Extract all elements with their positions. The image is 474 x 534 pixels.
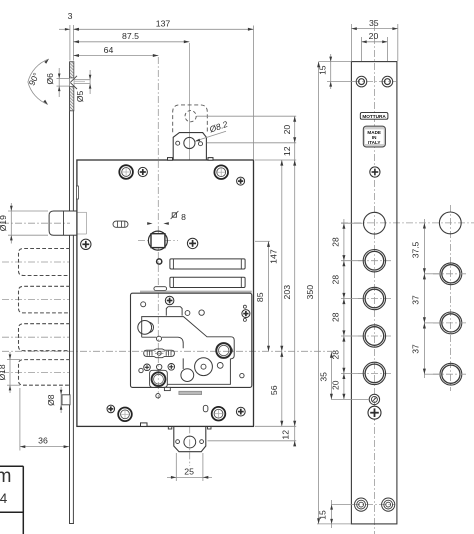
dimension 203 body height xyxy=(293,421,296,427)
svg-text:ITALY: ITALY xyxy=(368,140,381,145)
top bracket center hole dia 8.2 xyxy=(184,137,195,148)
gearbox hole right of gears xyxy=(217,363,223,369)
keyhole circle right column 1 xyxy=(439,212,461,234)
countersunk hole in faceplate xyxy=(70,78,74,87)
gear wheel big xyxy=(195,358,213,376)
lock body outline xyxy=(77,160,254,426)
svg-text:15: 15 xyxy=(317,65,327,75)
gearbox small screw right xyxy=(168,364,175,371)
gearbox mechanism outline xyxy=(142,317,235,385)
svg-text:28: 28 xyxy=(330,275,340,285)
extension line body bottom xyxy=(255,425,296,427)
dimension 350 faceplate height xyxy=(318,62,320,524)
notch on body left edge xyxy=(76,186,78,199)
bottom bracket left hole xyxy=(176,440,180,444)
MOTTURA logo plate xyxy=(360,113,388,120)
slot upper xyxy=(170,259,245,269)
svg-text:35: 35 xyxy=(318,372,328,382)
faceplate hole 4 xyxy=(363,325,385,347)
bottom fixing bracket xyxy=(174,427,206,452)
dimension 90 degree countersink xyxy=(28,59,49,105)
top bracket right screw hole xyxy=(199,142,203,146)
dimension 36 backset xyxy=(19,388,21,451)
faceplate top screw left xyxy=(356,76,367,87)
svg-text:350: 350 xyxy=(305,285,315,300)
screw M2 top-right xyxy=(214,165,228,179)
dimension 64 to spindle xyxy=(73,55,158,57)
lug fill xyxy=(173,133,206,160)
right column crosshairs xyxy=(433,273,468,275)
deadbolt 3 dashed xyxy=(19,324,71,351)
svg-text:25: 25 xyxy=(184,466,194,476)
dimension 35 axis to screw xyxy=(330,351,332,399)
keyhole circle right column 2 xyxy=(440,263,462,285)
centerline top bracket vertical xyxy=(188,43,190,160)
svg-text:28: 28 xyxy=(330,237,340,247)
centerline strip hole crosshairs xyxy=(358,260,391,262)
svg-text:37: 37 xyxy=(411,344,421,354)
svg-text:147: 147 xyxy=(269,249,279,264)
dimension 20 screw spacing xyxy=(361,37,363,61)
svg-text:56: 56 xyxy=(269,385,279,395)
leader dia 8.2 xyxy=(196,131,226,141)
dimension dia 8 pin xyxy=(60,387,62,413)
dimension 25 bracket holes xyxy=(175,453,177,481)
dimension 37.5 and 37 right column xyxy=(423,219,425,378)
keyhole circle right column 4 xyxy=(440,363,462,385)
centerline spindle vertical xyxy=(157,57,159,399)
small slot left of lower slot xyxy=(154,287,167,291)
dimension 85 spindle to axis xyxy=(268,241,270,351)
svg-text:Ø6: Ø6 xyxy=(45,73,55,85)
centerline faceplate front view vertical xyxy=(373,24,375,534)
dimension dia 6 countersink xyxy=(57,78,70,80)
faceplate hole 1 xyxy=(364,212,386,234)
square 8 dimension label xyxy=(172,213,177,218)
gearbox screw top xyxy=(165,296,174,305)
key bush fill xyxy=(150,370,168,387)
dimension 87.5 to top bracket xyxy=(73,41,189,43)
svg-text:MOTTURA: MOTTURA xyxy=(362,114,386,119)
faceplate top screw right xyxy=(382,76,393,87)
svg-text:12: 12 xyxy=(282,146,292,156)
gearbox hole bottom right xyxy=(240,373,244,377)
dia 8 hole through faceplate xyxy=(62,395,70,405)
gearbox small screw left xyxy=(144,364,151,371)
top bracket lug xyxy=(173,133,206,160)
svg-text:20: 20 xyxy=(369,31,379,41)
faceplate edge bar xyxy=(69,62,71,211)
title block table xyxy=(0,465,23,467)
gearbox pivot on centerline xyxy=(157,336,162,341)
extension line body top xyxy=(255,159,296,161)
tab on bottom edge left xyxy=(141,423,148,427)
svg-text:35: 35 xyxy=(369,18,379,28)
dimension 15 top xyxy=(319,61,352,63)
bottom bracket right hole xyxy=(200,440,204,444)
chain dimension 28 x4 and 20 xyxy=(343,219,345,399)
gearbox stop block xyxy=(166,307,182,316)
faceplate bottom screw right xyxy=(382,498,395,511)
centerline faceplate bottom screws xyxy=(353,504,395,506)
svg-text:3: 3 xyxy=(68,11,73,21)
svg-text:Ø5: Ø5 xyxy=(75,91,85,103)
svg-text:m: m xyxy=(0,466,12,487)
screw M4 bottom-right xyxy=(212,407,226,421)
gearbox hole near stop block xyxy=(185,311,190,316)
faceplate bottom screw left xyxy=(355,498,368,511)
centerline main horizontal axis xyxy=(2,350,332,352)
latch spring below gearbox xyxy=(164,387,170,390)
pin hole below spindle xyxy=(157,259,162,264)
bracket fill xyxy=(174,427,206,452)
faceplate hatched section xyxy=(70,62,74,111)
gearbox fill xyxy=(131,293,252,387)
svg-text:28: 28 xyxy=(330,312,340,322)
deadbolt 4 dashed xyxy=(19,360,71,386)
pin hole below gearbox xyxy=(156,394,160,398)
cross screw bottom-right xyxy=(236,407,245,416)
svg-text:87.5: 87.5 xyxy=(122,31,139,41)
svg-text:4: 4 xyxy=(0,491,8,506)
cross screw right upper xyxy=(237,177,245,185)
faceplate front view plate xyxy=(351,62,397,524)
keyhole circle right column 3 xyxy=(440,312,462,334)
top bracket left screw hole xyxy=(176,141,180,145)
body fill xyxy=(77,160,254,426)
centerline bolt row 1 xyxy=(2,261,70,263)
svg-text:8: 8 xyxy=(181,212,186,222)
deadbolt 2 dashed xyxy=(19,286,71,313)
gearbox screw right xyxy=(242,310,250,318)
svg-text:12: 12 xyxy=(281,430,291,440)
slot lower xyxy=(170,277,245,287)
oval vent hole xyxy=(113,221,128,227)
svg-text:36: 36 xyxy=(38,436,48,446)
centerline spindle horizontal crosshair xyxy=(138,240,178,242)
cross screw top-left xyxy=(138,167,147,176)
svg-text:64: 64 xyxy=(104,45,114,55)
small slot bottom xyxy=(203,405,208,412)
gear wheel small xyxy=(181,369,194,382)
centerline bottom bracket vertical xyxy=(189,426,191,466)
latch tail hidden inside body xyxy=(78,211,87,213)
faceplate small hole xyxy=(369,394,379,404)
faceplate hole 3 xyxy=(363,287,385,309)
deadbolt 1 dashed xyxy=(19,249,71,276)
gearbox hole below pivot xyxy=(157,364,162,369)
svg-text:203: 203 xyxy=(282,285,292,300)
top fixing bracket dashed extension xyxy=(173,105,208,132)
top bracket dashed hole xyxy=(185,111,196,122)
svg-text:85: 85 xyxy=(255,292,265,302)
body top edge tabs xyxy=(168,158,173,161)
key bit slot xyxy=(144,349,175,358)
svg-text:Ø8: Ø8 xyxy=(46,394,56,406)
key bush bottom xyxy=(150,370,168,387)
gearbox boss top-left xyxy=(138,321,152,335)
faceplate hole 2 xyxy=(363,250,385,272)
screw M3 bottom-left xyxy=(118,408,132,422)
dimension 137 body depth xyxy=(73,28,253,30)
centerline bolt row 4 xyxy=(2,371,70,373)
gearbox plate shadow edge xyxy=(140,291,252,293)
MADE IN ITALY plate xyxy=(363,126,385,147)
cross screw bottom-left xyxy=(107,405,115,413)
dimension 147 top to axis xyxy=(281,160,283,426)
gearbox pivot hole top-left xyxy=(141,302,146,307)
dimension 12 bottom right xyxy=(293,441,296,447)
dimension dia 18 deadbolt xyxy=(7,359,20,361)
svg-text:Ø19: Ø19 xyxy=(0,215,8,231)
dimension dia 19 latch xyxy=(8,210,48,212)
svg-text:Ø18: Ø18 xyxy=(0,364,7,380)
svg-text:15: 15 xyxy=(317,510,327,520)
dimension 15 bottom xyxy=(331,504,355,506)
extension line bracket hole xyxy=(208,440,297,442)
gearbox hole upper middle xyxy=(199,310,204,315)
centerline hole row 1 horizontal xyxy=(341,222,474,224)
dimension 3 faceplate thickness xyxy=(69,25,71,61)
bottom edge tabs xyxy=(168,427,172,429)
extension line lug hole center xyxy=(207,142,296,144)
gearbox plate xyxy=(131,293,252,387)
svg-text:37.5: 37.5 xyxy=(411,241,421,258)
faceplate cross screw lower xyxy=(368,406,381,419)
dimension 35 faceplate width xyxy=(350,24,352,61)
latch fill xyxy=(49,211,77,235)
spindle square 8mm xyxy=(151,234,165,248)
bottom bracket center hole xyxy=(184,436,196,448)
faceplate front fill xyxy=(351,62,397,524)
centerline bolt row 2 xyxy=(2,299,70,301)
centerline faceplate top screws xyxy=(353,81,396,83)
dimension 20 and 12 top right xyxy=(294,116,296,443)
centerline right hole column vertical xyxy=(450,205,452,391)
svg-text:20: 20 xyxy=(282,125,292,135)
faceplate hole 5 xyxy=(363,362,385,384)
key bit slot fill xyxy=(144,349,175,358)
cylinder ring hole xyxy=(216,343,231,358)
centerline latch row xyxy=(2,222,70,224)
extension line hole center top bracket xyxy=(197,115,297,117)
centerline bolt row 3 xyxy=(2,336,70,338)
spring bar below gearbox xyxy=(179,391,202,394)
cross screw left middle xyxy=(81,239,91,249)
svg-text:137: 137 xyxy=(156,18,171,28)
spindle follower hole xyxy=(148,231,167,250)
gearbox tiny hole left xyxy=(139,368,143,372)
faceplate cross screw upper xyxy=(370,167,380,177)
dimension 56 axis to bottom xyxy=(280,421,283,427)
screw M1 top-left xyxy=(119,165,133,179)
latch bolt head xyxy=(49,211,70,235)
extension line spindle center xyxy=(255,240,270,242)
cross screw center right of spindle xyxy=(187,238,197,248)
svg-text:37: 37 xyxy=(411,295,421,305)
dimension dia 5 hole xyxy=(89,70,91,94)
